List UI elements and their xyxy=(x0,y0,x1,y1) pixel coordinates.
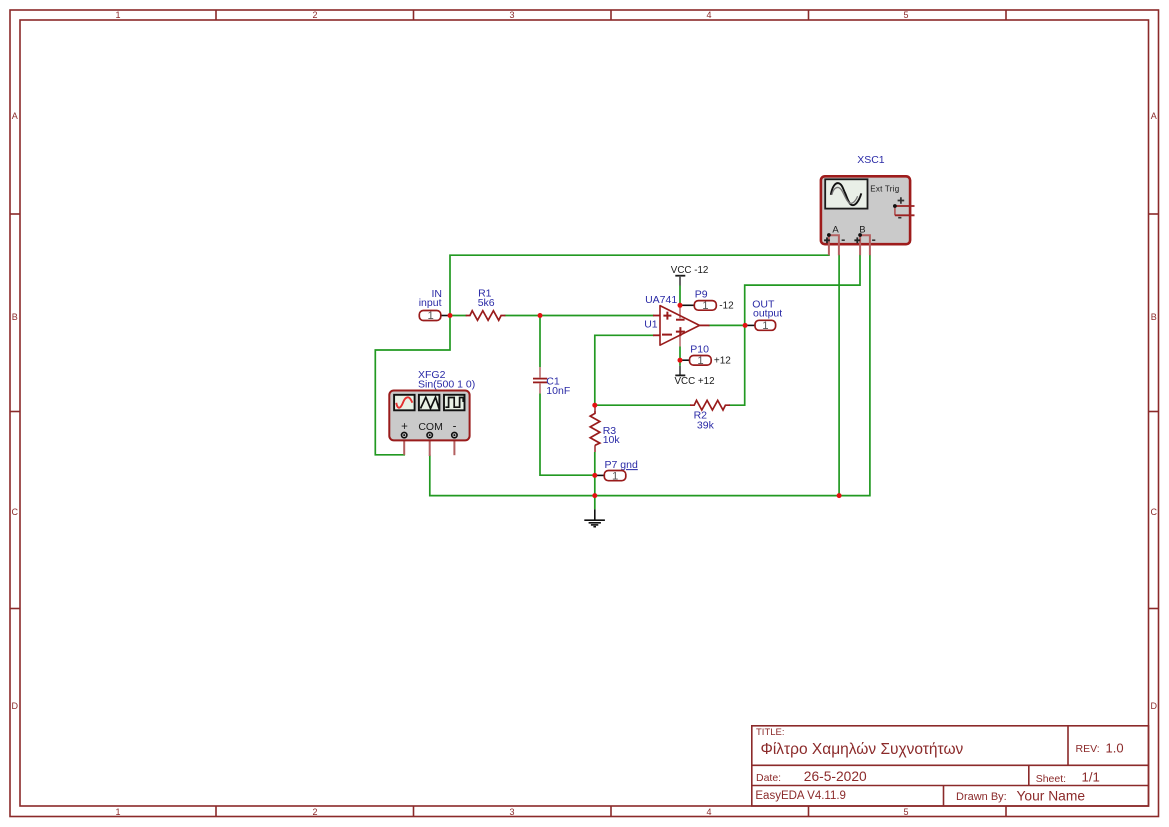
WIRES xyxy=(375,255,870,509)
svg-text:1/1: 1/1 xyxy=(1082,770,1100,785)
svg-text:Sheet:: Sheet: xyxy=(1036,773,1066,785)
svg-text:VCC +12: VCC +12 xyxy=(675,376,715,387)
junction node IN xyxy=(448,313,453,318)
junction node OUT xyxy=(743,323,748,328)
resistor R1 xyxy=(466,288,506,321)
power VCC -12 xyxy=(671,265,709,285)
junction node scope A- on ground bus xyxy=(837,493,842,498)
capacitor C1 xyxy=(533,367,570,397)
ground symbol xyxy=(584,509,605,526)
svg-text:Date:: Date: xyxy=(756,772,781,784)
svg-text:C: C xyxy=(11,507,18,517)
wire VCC-12 to op-amp xyxy=(679,286,681,306)
svg-text:2: 2 xyxy=(312,10,317,20)
junction node P10/VCC+12 xyxy=(678,358,683,363)
port P9 (-12) xyxy=(681,288,734,312)
svg-text:1.0: 1.0 xyxy=(1106,741,1124,756)
port IN (input) xyxy=(419,288,450,322)
port P10 (+12) xyxy=(681,344,731,367)
svg-text:P7 gnd: P7 gnd xyxy=(605,459,638,471)
svg-text:D: D xyxy=(1150,701,1157,711)
wire scope A- to ground bus xyxy=(838,255,840,495)
wire C1 bottom to P7 node xyxy=(540,393,595,475)
junction node P9/VCC-12 xyxy=(678,303,683,308)
svg-text:1: 1 xyxy=(697,355,703,367)
svg-text:-: - xyxy=(453,421,457,433)
svg-text:UA741: UA741 xyxy=(645,294,677,306)
svg-text:Drawn By:: Drawn By: xyxy=(956,791,1007,803)
svg-text:4: 4 xyxy=(706,10,711,20)
svg-text:COM: COM xyxy=(418,421,443,433)
oscilloscope XSC1 xyxy=(821,154,915,255)
svg-text:B: B xyxy=(1151,312,1157,322)
svg-text:+: + xyxy=(401,421,408,433)
svg-text:TITLE:: TITLE: xyxy=(756,727,785,738)
svg-text:U1: U1 xyxy=(644,319,658,331)
svg-text:5: 5 xyxy=(903,10,908,20)
svg-text:A: A xyxy=(12,111,18,121)
svg-text:input: input xyxy=(419,297,442,309)
svg-text:C: C xyxy=(1150,507,1157,517)
resistor R2 xyxy=(690,400,730,431)
op-amp U1 UA741 xyxy=(644,294,709,346)
svg-text:5: 5 xyxy=(903,807,908,817)
wire R2 to feedback column xyxy=(730,255,860,405)
wire node to C1 top xyxy=(539,316,541,368)
svg-text:1: 1 xyxy=(427,310,433,322)
wire R3 node to R2 xyxy=(595,404,690,406)
svg-text:B: B xyxy=(12,312,18,322)
COMPONENTS xyxy=(389,154,914,527)
port P7 (gnd) xyxy=(596,459,638,482)
svg-text:1: 1 xyxy=(115,807,120,817)
TITLE BLOCK xyxy=(752,726,1149,806)
svg-text:1: 1 xyxy=(115,10,120,20)
function generator XFG2 xyxy=(389,369,475,456)
svg-text:10nF: 10nF xyxy=(546,385,570,397)
junction node R3/R2 xyxy=(592,403,597,408)
svg-text:Ext Trig: Ext Trig xyxy=(870,184,899,193)
wire IN port to R1 xyxy=(450,315,466,317)
svg-text:4: 4 xyxy=(706,807,711,817)
svg-text:P10: P10 xyxy=(690,344,709,356)
svg-text:P9: P9 xyxy=(695,288,708,300)
junction node R1/C1 xyxy=(538,313,543,318)
junction node ground bus xyxy=(592,493,597,498)
svg-text:39k: 39k xyxy=(697,419,715,431)
resistor R3 xyxy=(590,405,620,452)
wire R3 bottom to ground node xyxy=(594,452,596,509)
svg-text:3: 3 xyxy=(509,807,514,817)
junction node P7 xyxy=(592,473,597,478)
svg-text:1: 1 xyxy=(762,320,768,332)
svg-text:26-5-2020: 26-5-2020 xyxy=(804,769,867,784)
power VCC +12 xyxy=(675,366,715,387)
svg-text:10k: 10k xyxy=(603,434,621,446)
wire R1 to node and op-amp + input xyxy=(505,315,653,317)
wire op-amp output to junction xyxy=(710,324,745,326)
svg-text:Your Name: Your Name xyxy=(1017,789,1086,804)
svg-text:1: 1 xyxy=(702,300,708,312)
svg-text:2: 2 xyxy=(312,807,317,817)
wire op-amp to VCC+12 xyxy=(679,347,681,366)
port OUT (output) xyxy=(745,298,782,332)
svg-text:output: output xyxy=(753,307,782,319)
svg-text:1: 1 xyxy=(612,470,618,482)
wire IN net: top run to scope A+ xyxy=(450,255,829,315)
wire ground bus xyxy=(430,255,870,495)
svg-text:EasyEDA V4.11.9: EasyEDA V4.11.9 xyxy=(755,790,846,802)
svg-text:XSC1: XSC1 xyxy=(857,154,885,166)
svg-text:Φίλτρο Χαμηλών Συχνοτήτων: Φίλτρο Χαμηλών Συχνοτήτων xyxy=(761,741,964,758)
wire inverting input to R3 column xyxy=(595,335,653,405)
svg-text:A: A xyxy=(832,225,839,236)
svg-text:A: A xyxy=(1151,111,1157,121)
svg-text:5k6: 5k6 xyxy=(478,297,495,309)
svg-text:Sin(500 1 0): Sin(500 1 0) xyxy=(418,378,475,390)
svg-text:-12: -12 xyxy=(719,301,734,312)
svg-text:REV:: REV: xyxy=(1076,743,1100,755)
svg-text:+12: +12 xyxy=(714,355,731,366)
svg-text:3: 3 xyxy=(509,10,514,20)
svg-text:VCC -12: VCC -12 xyxy=(671,265,709,276)
wire IN net: down-left to XFG2 + xyxy=(375,316,450,455)
svg-text:D: D xyxy=(11,701,18,711)
